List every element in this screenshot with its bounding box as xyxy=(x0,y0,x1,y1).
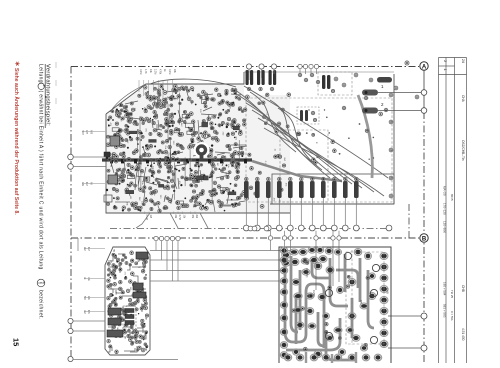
svg-text:24: 24 xyxy=(461,59,465,63)
svg-text:P5: P5 xyxy=(359,300,363,304)
svg-text:15: 15 xyxy=(12,338,21,346)
svg-text:470k: 470k xyxy=(158,69,161,75)
svg-text:0,1M: 0,1M xyxy=(145,215,147,220)
svg-text:0,1M: 0,1M xyxy=(139,69,142,74)
svg-text:0,1M: 0,1M xyxy=(168,69,171,74)
svg-text:✶: ✶ xyxy=(13,61,21,67)
svg-text:180 + 594: 180 + 594 xyxy=(443,282,447,296)
svg-text:0 ± 5%: 0 ± 5% xyxy=(450,311,454,321)
svg-text:CHB: CHB xyxy=(386,288,390,294)
svg-text:120–80K: 120–80K xyxy=(443,221,447,233)
svg-text:C250: C250 xyxy=(312,290,316,297)
svg-text:583 + 583: 583 + 583 xyxy=(443,304,447,318)
svg-text:BC: BC xyxy=(138,259,140,262)
svg-text:170–120: 170–120 xyxy=(443,203,447,215)
svg-text:MA–20: MA–20 xyxy=(443,186,447,196)
svg-text:4,7k: 4,7k xyxy=(144,69,147,74)
svg-text:BC: BC xyxy=(216,163,218,166)
svg-text:1M: 1M xyxy=(224,172,226,175)
svg-text:(C1-250): (C1-250) xyxy=(305,268,308,278)
svg-text:bezeichnet.: bezeichnet. xyxy=(38,290,44,319)
svg-text:CHB: CHB xyxy=(461,285,465,292)
svg-text:1M: 1M xyxy=(129,196,131,199)
svg-text:1: 1 xyxy=(42,85,46,87)
svg-text:A: A xyxy=(422,64,427,70)
svg-text:1M: 1M xyxy=(209,172,211,175)
svg-text:2,2M: 2,2M xyxy=(154,69,157,74)
svg-text:4.51 400: 4.51 400 xyxy=(461,328,465,341)
svg-text:B: B xyxy=(422,236,427,242)
svg-text:Tkl 25: Tkl 25 xyxy=(450,290,454,299)
svg-text:OSZ/CHB–Tln: OSZ/CHB–Tln xyxy=(461,140,465,161)
svg-text:CHA: CHA xyxy=(461,95,465,103)
svg-text:80±5: 80±5 xyxy=(450,194,454,201)
svg-text:HC8: HC8 xyxy=(81,130,83,135)
svg-text:Siehe auch Änderungen während: Siehe auch Änderungen während der Produk… xyxy=(13,68,20,215)
svg-text:A88: A88 xyxy=(89,130,92,135)
svg-text:1M: 1M xyxy=(120,118,122,121)
svg-text:Leitung: Leitung xyxy=(38,64,44,83)
svg-text:( erwähnt bei Einheit A ) führ: ( erwähnt bei Einheit A ) führt nach Ein… xyxy=(38,91,44,270)
svg-text:4,7M: 4,7M xyxy=(178,215,180,220)
svg-text:A37: A37 xyxy=(85,130,88,135)
